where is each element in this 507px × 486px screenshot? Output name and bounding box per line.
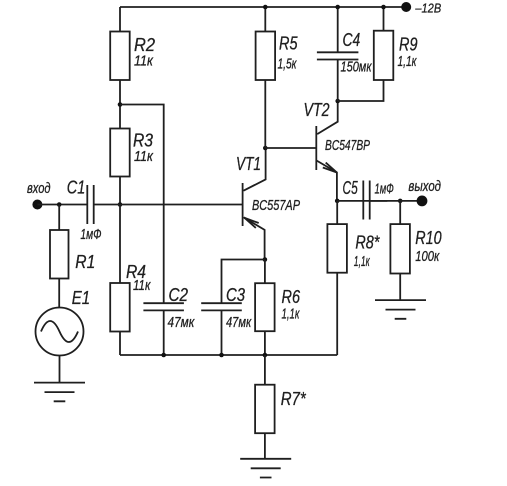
- wire emitter node to C5: [337, 200, 387, 202]
- wire C4 top: [337, 7, 339, 53]
- resistor R4: [110, 283, 130, 332]
- svg-text:1мФ: 1мФ: [375, 182, 394, 198]
- wire C1 to VT1 base: [94, 204, 243, 206]
- svg-text:11к: 11к: [134, 54, 154, 70]
- wire rail to R7: [264, 355, 266, 385]
- node rail-C2: [161, 353, 166, 358]
- wire input node to R4: [119, 205, 121, 284]
- svg-text:C2: C2: [169, 285, 189, 305]
- node rail-R6: [263, 353, 268, 358]
- wire R5 bottom to node: [264, 80, 266, 148]
- capacitor C4: [317, 52, 359, 59]
- resistor R10: [390, 224, 410, 273]
- node VT1 emitter node: [263, 257, 268, 262]
- svg-text:R7*: R7*: [281, 389, 307, 409]
- terminal -12V: [401, 2, 411, 12]
- resistor R9: [374, 31, 394, 80]
- resistor R3: [110, 129, 130, 177]
- wire R7 to ground: [264, 433, 266, 459]
- wire R5 top: [264, 7, 266, 32]
- capacitor C3: [201, 303, 242, 310]
- svg-text:R5: R5: [279, 34, 298, 54]
- svg-text:R3: R3: [133, 131, 153, 151]
- generator E1: [36, 308, 84, 356]
- wire E1 to ground: [59, 356, 61, 383]
- ground R7: [240, 459, 291, 478]
- svg-text:1,1к: 1,1к: [354, 254, 371, 270]
- svg-text:1,5к: 1,5к: [278, 57, 298, 73]
- wire R6 top: [264, 260, 266, 284]
- capacitor C5: [363, 181, 369, 220]
- wire C4 bottom to node: [337, 59, 339, 101]
- node rail-C4: [335, 5, 340, 10]
- wire C2 bottom: [163, 310, 165, 355]
- svg-text:C4: C4: [343, 30, 361, 50]
- svg-text:11к: 11к: [134, 149, 154, 165]
- svg-text:150мк: 150мк: [341, 60, 373, 76]
- svg-text:1мФ: 1мФ: [80, 227, 101, 243]
- wire bottom rail: [120, 354, 337, 356]
- svg-text:R6: R6: [282, 287, 301, 307]
- svg-text:R2: R2: [134, 35, 155, 55]
- wire R9 top: [383, 7, 385, 31]
- wire top power rail: [120, 6, 406, 8]
- svg-text:11к: 11к: [133, 278, 151, 294]
- wire node to VT2 base: [265, 147, 316, 149]
- node rail-C3: [219, 353, 224, 358]
- node rail-R9: [381, 5, 386, 10]
- node VT2 collector node: [335, 99, 340, 104]
- wire C3 bottom: [221, 310, 223, 355]
- svg-text:–12В: –12В: [415, 0, 442, 15]
- wire R6 bottom: [264, 331, 266, 355]
- wire R3 bottom to input node: [119, 177, 121, 205]
- svg-text:C1: C1: [67, 178, 86, 198]
- svg-text:R9: R9: [399, 35, 418, 55]
- wire R2 bottom to R3 top: [119, 80, 121, 129]
- wire R8 bottom to rail: [336, 273, 338, 355]
- terminal input: [32, 200, 42, 210]
- svg-text:VT1: VT1: [236, 154, 261, 174]
- transistor VT2 BC547BP (NPN): [316, 101, 337, 201]
- node R2-R3 junction: [118, 102, 123, 107]
- wire R10 bottom: [399, 274, 401, 301]
- wire input to C1: [37, 204, 87, 206]
- terminal output: [417, 196, 428, 207]
- wire R10 top: [399, 201, 401, 224]
- svg-text:BC547BP: BC547BP: [325, 138, 370, 154]
- svg-text:выход: выход: [408, 178, 441, 195]
- svg-text:1,1к: 1,1к: [282, 307, 301, 323]
- wire node to R9: [338, 80, 384, 101]
- node rail-R5: [263, 5, 268, 10]
- resistor R1: [50, 230, 69, 279]
- ground R10: [375, 300, 426, 319]
- ground E1: [34, 383, 85, 402]
- resistor R8: [327, 224, 347, 273]
- wire junction to C2: [120, 105, 164, 304]
- svg-text:VT2: VT2: [304, 100, 330, 120]
- wire emitter node to C3: [222, 260, 265, 304]
- svg-text:47мк: 47мк: [168, 315, 196, 331]
- svg-text:BC557AP: BC557AP: [252, 198, 300, 214]
- resistor R7: [255, 385, 275, 434]
- node output-R10 junction: [398, 199, 403, 204]
- wire R1 to E1: [58, 279, 60, 308]
- node VT1 collector node: [263, 146, 268, 151]
- svg-text:100к: 100к: [415, 249, 440, 265]
- transistor VT1 BC557AP (PNP): [243, 148, 266, 260]
- svg-text:1,1к: 1,1к: [398, 54, 418, 70]
- svg-text:вход: вход: [27, 180, 51, 197]
- wire R8 top: [336, 201, 338, 224]
- wire R1 top: [58, 205, 60, 231]
- node VT2 emitter node: [335, 199, 340, 204]
- svg-text:47мк: 47мк: [226, 315, 252, 331]
- wire C5 to output: [370, 200, 422, 202]
- svg-text:R8*: R8*: [355, 232, 380, 252]
- node input-R1 junction: [57, 202, 62, 207]
- svg-text:C3: C3: [226, 285, 245, 305]
- node base node VT1: [118, 202, 123, 207]
- svg-text:R1: R1: [75, 252, 95, 272]
- resistor R2: [110, 32, 130, 81]
- resistor R5: [256, 32, 276, 81]
- resistor R6: [255, 283, 275, 331]
- capacitor C1: [87, 185, 93, 224]
- svg-text:E1: E1: [72, 288, 90, 308]
- svg-text:R10: R10: [415, 228, 441, 248]
- wire R4 bottom: [119, 332, 121, 356]
- svg-text:C5: C5: [343, 178, 359, 198]
- wire R2 top: [119, 7, 121, 32]
- capacitor C2: [143, 303, 184, 310]
